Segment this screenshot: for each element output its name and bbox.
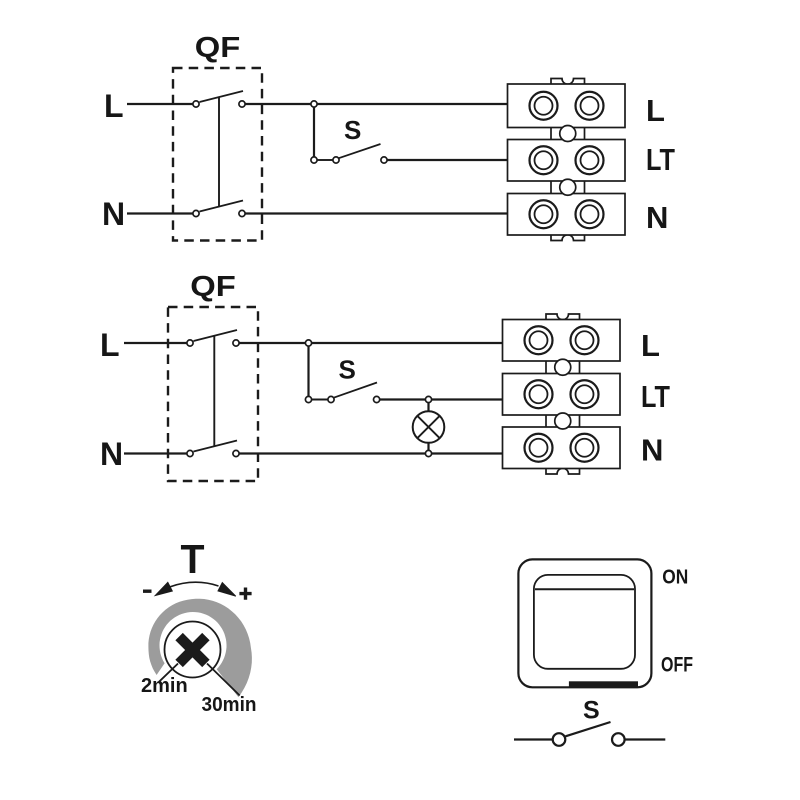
wire N input	[127, 212, 193, 214]
svg-text:2min: 2min	[141, 675, 188, 697]
terminal block X1 pole L body	[508, 84, 626, 128]
switch S symbol left wire	[514, 738, 553, 740]
svg-text:QF: QF	[190, 271, 236, 303]
svg-text:S: S	[339, 355, 356, 385]
svg-text:N: N	[100, 436, 123, 472]
switch S2 pivot contact	[328, 396, 334, 402]
switch S2 left contact	[305, 396, 311, 402]
wire S2 to lamp node	[380, 398, 426, 400]
terminal block X2 pole N body	[503, 427, 621, 469]
breaker QF1 mechanical link	[218, 97, 220, 207]
breaker QF1 pole L left contact	[193, 101, 199, 107]
node junction on wire L	[311, 101, 317, 107]
terminal block X1 link hole 1	[560, 126, 576, 142]
wire L input	[127, 103, 193, 105]
lamp top node	[425, 396, 431, 402]
svg-text:N: N	[641, 433, 663, 468]
switch S1 pivot contact	[333, 157, 339, 163]
wire N to terminal	[245, 212, 507, 214]
node junction on wire L (middle)	[305, 340, 311, 346]
svg-text:N: N	[102, 196, 125, 232]
timer plus sign	[239, 588, 251, 600]
breaker QF2 mechanical link	[213, 336, 215, 447]
svg-text:L: L	[641, 328, 660, 363]
terminal block X2 pole L left screw	[525, 326, 553, 354]
switch S2 right contact	[374, 396, 380, 402]
terminal block X1 top tab	[551, 79, 585, 87]
terminal block X1 pole N left screw	[530, 200, 558, 228]
lamp top lead	[427, 403, 429, 412]
terminal block X1 bottom tab	[551, 233, 585, 241]
breaker QF1 pole L right contact	[239, 101, 245, 107]
rocker switch bottom mark	[569, 681, 638, 686]
svg-text:T: T	[181, 536, 205, 582]
wire L input (middle)	[124, 342, 187, 344]
rocker switch outer frame	[518, 559, 651, 687]
terminal block X1 link 1	[551, 128, 585, 140]
wire junction down to switch S1	[313, 107, 315, 157]
timer knob gray range band	[148, 599, 252, 697]
lamp HL1	[413, 411, 445, 443]
lamp bottom lead	[427, 443, 429, 451]
breaker QF2 pole L blade	[194, 330, 238, 341]
timer arrowhead right	[218, 583, 236, 597]
switch S2 blade	[334, 383, 377, 398]
rocker switch ridge line	[535, 588, 634, 590]
terminal block X2 pole LT left screw	[525, 380, 553, 408]
breaker QF2 pole N left contact	[187, 450, 193, 456]
switch S1 blade	[339, 144, 381, 158]
svg-text:LT: LT	[641, 379, 670, 414]
terminal block X2 bottom tab	[546, 467, 580, 475]
terminal block X1 pole LT body	[508, 140, 626, 182]
switch S1 contact link wire	[317, 159, 333, 161]
terminal block X1	[508, 79, 626, 241]
terminal block X2 pole N right screw	[571, 434, 599, 462]
terminal block X2 pole L body	[503, 320, 621, 362]
terminal block X1 link hole 2	[560, 179, 576, 195]
terminal block X1 pole LT right screw	[576, 146, 604, 174]
terminal block X2 pole N left screw	[525, 434, 553, 462]
terminal block X2 link 2	[546, 415, 580, 427]
breaker QF1 pole N blade	[200, 201, 244, 212]
rocker switch button	[534, 575, 635, 669]
terminal block X1 pole N body	[508, 194, 626, 236]
terminal block X1 pole N right screw	[576, 200, 604, 228]
wire L from breaker to terminal (middle)	[239, 342, 502, 344]
wire L from breaker to terminal	[245, 103, 507, 105]
switch S1 right contact	[381, 157, 387, 163]
switch S symbol blade	[566, 722, 611, 736]
terminal block X2 pole L right screw	[571, 326, 599, 354]
terminal block X2 link hole 1	[555, 359, 571, 375]
svg-text:S: S	[583, 697, 600, 725]
breaker QF1 pole N right contact	[239, 210, 245, 216]
terminal block X2 link hole 2	[555, 413, 571, 429]
terminal block X2 top tab	[546, 314, 580, 322]
wire S1 to terminal LT	[387, 159, 507, 161]
terminal block X2 pole LT right screw	[571, 380, 599, 408]
svg-text:30min: 30min	[202, 694, 257, 716]
terminal block X2	[503, 314, 621, 474]
timer knob cross slot	[179, 637, 206, 664]
svg-text:QF: QF	[195, 32, 241, 64]
breaker QF1 pole N left contact	[193, 210, 199, 216]
timer pointer line to 30min	[207, 664, 240, 696]
breaker QF1 dashed box	[173, 68, 262, 241]
svg-text:LT: LT	[646, 142, 675, 177]
wire N input (middle)	[124, 452, 187, 454]
breaker QF2 pole L right contact	[233, 340, 239, 346]
svg-text:S: S	[344, 115, 361, 145]
breaker QF2 dashed box	[168, 307, 258, 481]
timer pointer line to 2min	[159, 664, 178, 682]
terminal block X1 link 2	[551, 181, 585, 194]
terminal block X1 pole L right screw	[576, 92, 604, 120]
timer minus sign	[143, 590, 152, 593]
switch S symbol right wire	[625, 738, 666, 740]
timer adjust arc arrow	[170, 582, 219, 587]
wire lamp node to terminal LT (middle)	[432, 398, 503, 400]
lamp bottom node	[425, 450, 431, 456]
svg-text:L: L	[100, 327, 120, 363]
switch S symbol right contact	[612, 733, 625, 746]
timer knob dial circle	[165, 622, 221, 678]
svg-text:L: L	[104, 88, 124, 124]
svg-text:ON: ON	[662, 567, 688, 589]
terminal block X1 pole LT left screw	[530, 146, 558, 174]
terminal block X1 pole L left screw	[530, 92, 558, 120]
wire N to terminal (middle)	[239, 452, 502, 454]
breaker QF2 pole N right contact	[233, 450, 239, 456]
svg-text:L: L	[646, 93, 665, 128]
switch S2 contact link wire	[312, 399, 328, 401]
breaker QF2 pole L left contact	[187, 340, 193, 346]
switch S symbol left contact	[553, 733, 566, 746]
breaker QF1 pole L blade	[200, 91, 244, 102]
terminal block X2 link 1	[546, 361, 580, 374]
svg-text:N: N	[646, 200, 668, 235]
svg-text:OFF: OFF	[661, 653, 693, 676]
terminal block X2 pole LT body	[503, 374, 621, 416]
timer arrowhead left	[155, 582, 172, 595]
breaker QF2 pole N blade	[194, 441, 238, 452]
wire junction down to switch S2	[307, 346, 309, 396]
switch S1 left contact	[311, 157, 317, 163]
